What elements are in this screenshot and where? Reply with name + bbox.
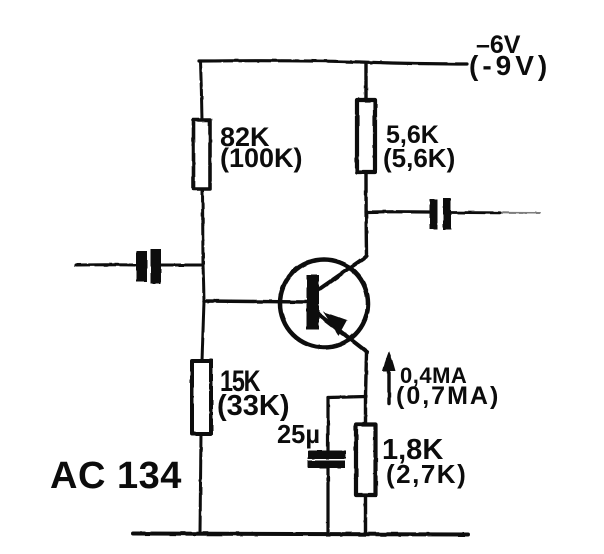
wire: bypass branch down to C3 <box>326 398 329 452</box>
wire: output lead right faded end <box>500 212 540 214</box>
transistor Q1 emitter stroke <box>318 314 367 352</box>
capacitor C2 output left plate <box>430 199 438 229</box>
svg-text:(33K): (33K) <box>217 390 290 422</box>
transistor Q1 collector stroke <box>318 256 367 290</box>
svg-text:(5,6K): (5,6K) <box>383 143 455 173</box>
resistor R1 82K body <box>194 120 211 189</box>
capacitor C1 input left plate <box>136 251 147 282</box>
wire: base junction down to R2 <box>202 301 204 361</box>
wire: top supply rail <box>199 61 467 64</box>
capacitor C2 output right plate <box>443 198 451 230</box>
wire: right branch drop from rail to R3 <box>364 63 367 100</box>
wire: output lead from collector node <box>366 210 429 213</box>
wire: input junction down to base junction <box>203 264 204 301</box>
svg-text:(2,7K): (2,7K) <box>386 459 467 489</box>
wire: emitter junction down to R4 <box>364 397 367 425</box>
wire: input lead left <box>76 263 135 266</box>
capacitor C3 bypass bottom plate <box>308 461 346 469</box>
emitter current arrowhead <box>383 351 396 371</box>
wire: output lead right <box>451 211 500 214</box>
resistor R4 1.8K body <box>356 425 376 496</box>
resistor R3 5.6K body <box>357 100 375 172</box>
wire: R2 bottom to ground rail <box>200 434 201 533</box>
wire: ground rail <box>133 534 468 535</box>
svg-text:(0,7MA): (0,7MA) <box>396 382 500 410</box>
transistor Q1 emitter arrowhead (PNP) <box>323 312 347 336</box>
wire: junction stub to bypass branch <box>328 397 366 398</box>
transistor Q1 circle <box>280 260 368 348</box>
svg-text:AC 134: AC 134 <box>50 455 182 497</box>
capacitor C1 input right plate <box>151 249 162 284</box>
emitter current arrow shaft <box>387 364 390 404</box>
svg-text:(-9V): (-9V) <box>469 50 551 81</box>
resistor R2 15K body <box>192 361 211 434</box>
capacitor C3 bypass top plate <box>308 451 346 460</box>
wire: C1 to base node <box>161 264 201 267</box>
wire: R4 bottom to ground rail <box>364 495 367 534</box>
wire: R1 bottom to input junction <box>201 189 205 264</box>
svg-text:(100K): (100K) <box>220 143 303 173</box>
wire: emitter down to junction <box>366 352 367 397</box>
wire: base wire to transistor <box>204 301 307 302</box>
transistor Q1 base bar <box>307 275 320 330</box>
svg-text:25µ: 25µ <box>277 419 320 449</box>
wire: left branch drop from rail to R1 <box>201 61 203 120</box>
wire: R3 bottom to collector <box>364 172 368 256</box>
wire: C3 to ground rail <box>326 468 329 534</box>
